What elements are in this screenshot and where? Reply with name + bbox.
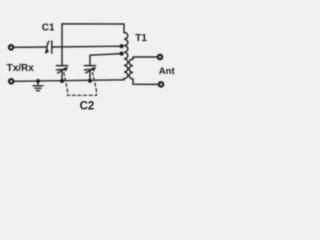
terminal Tx/Rx bottom [9, 79, 13, 83]
node C2b junction [88, 79, 92, 83]
wire top rail [62, 24, 124, 47]
capacitor C2b bottom lead [89, 70, 91, 81]
svg-text:Ant: Ant [159, 66, 176, 77]
terminal Tx/Rx top [9, 45, 13, 49]
ground [33, 79, 43, 91]
capacitor C1 [45, 41, 52, 53]
dashed gang linkage C2 [64, 73, 97, 96]
wire secondary top to Ant [133, 56, 158, 58]
node C2a junction [60, 79, 64, 83]
terminal Ant [158, 55, 162, 59]
capacitor C2a [57, 66, 68, 73]
svg-text:C1: C1 [42, 23, 55, 34]
wire secondary bottom [133, 83, 159, 85]
capacitor C2a top lead [61, 47, 63, 65]
capacitor C2b top lead and tap wire [90, 54, 122, 66]
svg-text:C2: C2 [80, 101, 95, 113]
svg-text:T1: T1 [135, 33, 147, 44]
wire C1 to T1 primary tap [53, 45, 122, 48]
capacitor C2a bottom lead [61, 70, 63, 81]
wire bottom rail [13, 80, 124, 82]
node tap lower [120, 52, 124, 56]
terminal antenna return [159, 82, 163, 86]
transformer T1 secondary winding [129, 57, 133, 84]
transformer T1 primary winding [124, 33, 128, 81]
capacitor C2b [85, 66, 96, 73]
node tap upper [120, 44, 124, 48]
wire input to C1 [13, 46, 46, 48]
svg-text:Tx/Rx: Tx/Rx [7, 63, 35, 74]
